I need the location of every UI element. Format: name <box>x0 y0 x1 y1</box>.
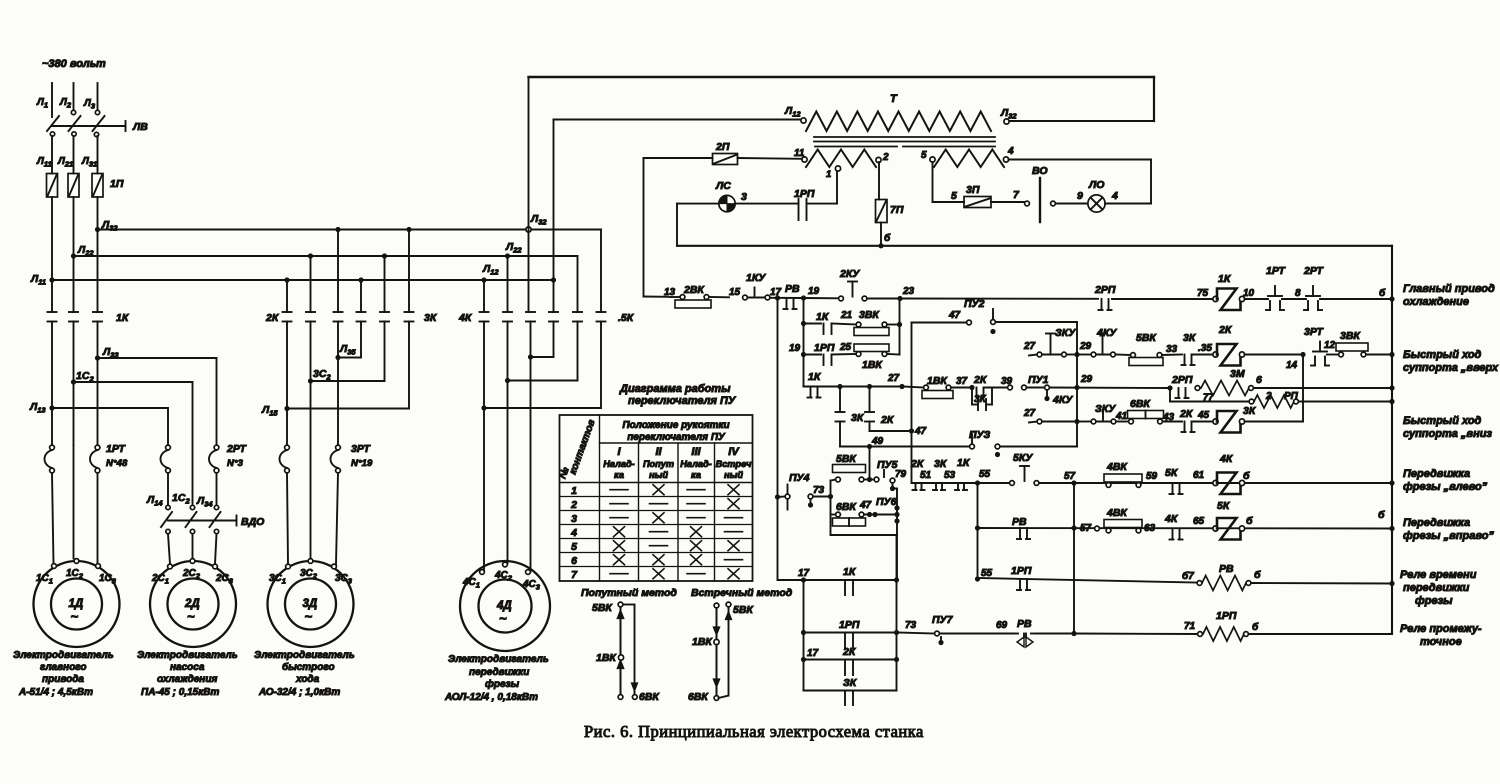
svg-text:Положение рукоятки: Положение рукоятки <box>622 420 729 431</box>
svg-text:4КУ: 4КУ <box>1096 327 1117 339</box>
node rung 1 bus <box>1389 296 1394 301</box>
svg-text:5: 5 <box>571 541 577 553</box>
svg-text:5: 5 <box>951 190 957 202</box>
wire б line <box>677 245 1392 247</box>
svg-text:4К: 4К <box>1219 453 1234 465</box>
svg-text:27: 27 <box>1023 341 1036 352</box>
попутный 1ВК node <box>618 655 623 660</box>
wire ПУ1 to 29 <box>1050 387 1171 390</box>
wire 3П to ВО <box>991 201 1025 203</box>
svg-text:6: 6 <box>1256 374 1262 386</box>
node Л35 crossover <box>335 355 340 360</box>
wire coil 3К to node 14 <box>1245 421 1304 423</box>
svg-text:3П: 3П <box>966 184 980 196</box>
svg-text:Электродвигатель: Электродвигатель <box>137 650 238 661</box>
wire riser 2К-A <box>286 280 288 312</box>
node rung вверх bus <box>1389 352 1394 357</box>
wire riser 3К-C <box>408 230 410 313</box>
РВ contact row <box>975 525 980 530</box>
svg-text:N°48: N°48 <box>106 458 128 469</box>
riser 57 <box>1073 483 1075 634</box>
wire 1РТ to 2РТ <box>1282 298 1306 300</box>
button 4КУ aux <box>1046 391 1048 396</box>
node 23 <box>897 296 902 301</box>
svg-text:9: 9 <box>1077 190 1083 202</box>
relay contact 2РП branch <box>1178 388 1180 398</box>
svg-text:~: ~ <box>187 609 195 624</box>
node branch 1 <box>801 321 806 326</box>
wire primary feed Л12 <box>554 119 803 121</box>
wire Л31 <box>97 136 99 174</box>
wire РВ rung to 1РП coil <box>1074 633 1198 636</box>
thermal contact 2РТ <box>1312 286 1314 296</box>
limit switch 3ВК вверх <box>1327 354 1339 356</box>
switch ЛВ blade 2 <box>69 116 81 131</box>
node 3С2 crossover <box>308 378 313 383</box>
svg-text:N°19: N°19 <box>351 458 373 469</box>
svg-text:фрезы „влево”: фрезы „влево” <box>1403 481 1488 493</box>
contactor coil 4К <box>1213 480 1218 485</box>
svg-text:51: 51 <box>920 470 932 481</box>
node 2РП branch <box>1167 385 1172 390</box>
relay contact РВ row <box>1019 528 1021 539</box>
wire 5 drop <box>932 162 934 202</box>
lamp ЛО <box>1088 195 1105 212</box>
node Л33 tap <box>95 355 100 360</box>
svg-text:10: 10 <box>1243 288 1255 299</box>
aux contact 2К column <box>865 411 874 413</box>
svg-text:РВ: РВ <box>1012 516 1027 528</box>
svg-text:Встречный метод: Встречный метод <box>691 587 793 599</box>
svg-text:41: 41 <box>1115 411 1128 422</box>
svg-text:б: б <box>1252 621 1259 633</box>
svg-text:2К: 2К <box>842 646 857 658</box>
svg-text:точное: точное <box>1420 636 1462 648</box>
node РВ bus <box>1389 581 1394 586</box>
svg-text:8: 8 <box>1295 288 1301 299</box>
svg-text:1КУ: 1КУ <box>746 272 766 284</box>
thermal contact 3РТ <box>1319 342 1321 352</box>
svg-text:4КУ: 4КУ <box>1052 394 1073 406</box>
contactor 1К main contact x=52 <box>48 311 57 313</box>
node 4Д crossover 1 <box>528 354 533 359</box>
wire 2Д C lower <box>216 473 218 505</box>
svg-text:4ВК: 4ВК <box>1106 461 1128 473</box>
transformer primary winding <box>806 112 991 132</box>
svg-text:57: 57 <box>1080 523 1092 534</box>
connector ПУ7 <box>935 631 940 636</box>
svg-text:19: 19 <box>789 343 801 354</box>
svg-text:РВ: РВ <box>785 283 800 295</box>
svg-text:2К: 2К <box>1218 324 1233 336</box>
wire self-hold rung <box>804 386 903 388</box>
wire phase 2 to bus <box>73 197 75 312</box>
svg-text:ВО: ВО <box>1032 165 1048 177</box>
wire 27 stub вверх <box>1029 355 1037 356</box>
motor 4Д terminals <box>480 570 485 575</box>
svg-text:ЗК: ЗК <box>843 677 858 689</box>
motor 2Д terminals <box>168 564 173 569</box>
svg-text:2: 2 <box>882 152 889 163</box>
svg-text:РВ: РВ <box>1219 563 1234 575</box>
svg-text:IV: IV <box>728 446 740 458</box>
wire 1Д phase A <box>51 322 53 446</box>
node 79 lower <box>890 486 895 491</box>
wire phase 3 to bus <box>97 197 99 312</box>
svg-text:б7: б7 <box>1182 570 1194 582</box>
svg-text:1РТ: 1РТ <box>106 443 126 455</box>
wire ПУ7 to 69 <box>940 633 1015 635</box>
motor 1Д terminals <box>52 564 57 569</box>
wire 7П to node б <box>880 223 882 246</box>
switch ВДО lower contacts <box>166 529 170 533</box>
limit switch 1ВК main <box>924 385 929 390</box>
limit switch 4ВК вправо <box>1104 520 1142 528</box>
svg-text:~: ~ <box>71 609 79 624</box>
wire РП to bus <box>1299 401 1393 403</box>
aux contact 5К влево <box>1172 483 1174 494</box>
svg-text:1ВК: 1ВК <box>692 636 713 648</box>
svg-text:55: 55 <box>979 469 991 480</box>
svg-text:3К: 3К <box>851 412 865 424</box>
limit switch 4ВК влево <box>1104 474 1142 482</box>
fuse 2П <box>713 154 738 165</box>
wire 17 corner to ladder <box>778 579 804 581</box>
svg-text:Налад-: Налад- <box>680 459 711 469</box>
wire Л11 <box>51 136 53 174</box>
contactor 2К main contact x=310.5 <box>306 311 315 313</box>
wire 3М to bus <box>1254 387 1393 389</box>
svg-text:75: 75 <box>1197 288 1209 299</box>
thermal relay 2РТ element C <box>214 445 219 450</box>
svg-text:1ВК: 1ВК <box>927 375 948 387</box>
svg-text:Передвижка: Передвижка <box>1403 517 1470 529</box>
thermal relay 3РТ element A <box>285 445 290 450</box>
relay coil РВ <box>1197 581 1202 586</box>
bypass 3К loop <box>971 388 973 405</box>
table frame <box>560 415 753 581</box>
svg-text:73: 73 <box>813 485 825 496</box>
wire Л35 crossover <box>338 357 361 359</box>
aux contact 1К branch <box>823 324 825 335</box>
switch ЛВ blade 3 <box>93 116 105 131</box>
wire 4Д crossover 2 <box>508 380 578 382</box>
svg-text:суппорта „вверх: суппорта „вверх <box>1403 362 1499 374</box>
wire 1С2 to pump <box>74 381 193 383</box>
svg-text:фрезы „вправо”: фрезы „вправо” <box>1403 530 1494 542</box>
ladder rung 1К <box>804 579 897 581</box>
svg-text:III: III <box>691 446 701 458</box>
svg-text:33: 33 <box>1166 344 1178 355</box>
svg-text:Передвижка: Передвижка <box>1403 468 1470 480</box>
transformer secondary 1 tap 1 <box>835 166 840 171</box>
node 47 <box>909 428 914 433</box>
node 55 <box>975 480 980 485</box>
wire 49 drop <box>869 447 871 480</box>
node 6ВК right a <box>867 512 872 517</box>
wire ПУ3 right <box>1000 446 1077 448</box>
switch ВО <box>1025 201 1030 206</box>
wire phase Л3 drop <box>97 83 99 110</box>
svg-text:Электродвигатель: Электродвигатель <box>448 654 549 665</box>
svg-text:~380 вольт: ~380 вольт <box>42 58 106 70</box>
встречный 1ВК node <box>714 639 719 644</box>
svg-text:3РТ: 3РТ <box>1304 326 1324 338</box>
wire riser 5К-C <box>600 230 602 313</box>
wire 1Д phase C <box>97 322 99 446</box>
svg-text:1РП: 1РП <box>814 342 835 354</box>
svg-text:хода: хода <box>295 674 320 685</box>
wire tap 1 to 1РП <box>807 203 838 205</box>
svg-text:1РП: 1РП <box>1216 610 1237 622</box>
svg-text:~: ~ <box>499 611 507 626</box>
svg-text:Электродвигатель: Электродвигатель <box>254 650 355 661</box>
wire branch 1К-3ВК <box>804 323 822 325</box>
wire lamp ЛС left <box>677 203 719 205</box>
limit switch 6ВК вниз <box>1116 421 1129 423</box>
попутный return line <box>623 604 635 606</box>
svg-text:23: 23 <box>902 286 915 297</box>
contactor 5К main contact x=601 <box>597 311 606 313</box>
wire phase 1 to bus <box>51 197 53 312</box>
svg-text:5ВК: 5ВК <box>836 453 857 465</box>
svg-text:ка: ка <box>614 470 624 480</box>
svg-text:2К: 2К <box>1179 408 1194 420</box>
svg-text:охлаждение: охлаждение <box>1403 296 1469 308</box>
svg-text:1РП: 1РП <box>794 188 815 200</box>
node ПУ5 junction <box>867 477 872 482</box>
connector ПУ5 <box>874 477 879 482</box>
svg-text:переключателя ПУ: переключателя ПУ <box>628 395 737 407</box>
svg-text:Реле времени: Реле времени <box>1400 569 1477 581</box>
svg-text:65: 65 <box>1193 516 1205 527</box>
node 49 <box>867 444 872 449</box>
svg-text:3ВК: 3ВК <box>859 309 880 321</box>
wire 47 riser <box>911 323 913 484</box>
node 27 <box>899 384 904 389</box>
svg-text:ПУ2: ПУ2 <box>964 298 985 310</box>
svg-text:55: 55 <box>981 568 993 579</box>
svg-text:6ВК: 6ВК <box>836 501 857 513</box>
resistor 3М <box>1201 381 1249 396</box>
svg-text:12: 12 <box>1324 340 1336 351</box>
limit switch 1ВК <box>832 353 858 356</box>
transformer primary terminal Л32 <box>1004 119 1009 124</box>
svg-text:5: 5 <box>921 150 927 161</box>
node 29 mid <box>1074 385 1079 390</box>
svg-text:47: 47 <box>948 310 961 321</box>
wire right bus б <box>1391 246 1393 634</box>
relay contact 1РП row <box>1019 579 1021 590</box>
contactor 2К main contact x=287 <box>283 311 292 313</box>
wire 27 to node вниз <box>1042 421 1077 423</box>
wire ВО to ЛО <box>1056 203 1088 205</box>
thermal relay 1РТ element A <box>50 445 55 450</box>
contactor 1К main contact x=97.5 <box>93 311 102 313</box>
limit switch 5ВК lower <box>831 480 837 481</box>
transformer secondary 2 terminal 4 <box>1003 157 1008 162</box>
svg-text:2К: 2К <box>880 414 895 426</box>
svg-text:4ВК: 4ВК <box>1106 507 1128 519</box>
wire 3К column <box>839 387 841 413</box>
svg-text:Быстрый ход: Быстрый ход <box>1403 349 1482 361</box>
node 57 mid <box>1071 525 1076 530</box>
wire riser 3К-B <box>384 256 386 312</box>
table column lines <box>599 415 601 581</box>
svg-text:25: 25 <box>839 342 852 353</box>
svg-text:2РТ: 2РТ <box>226 443 247 455</box>
node вправо bus <box>1389 526 1394 531</box>
resistor РП <box>1249 399 1254 404</box>
switch ВДО pole 3 <box>214 505 218 509</box>
node Л15 crossover <box>284 406 289 411</box>
svg-text:1К: 1К <box>116 312 130 324</box>
svg-text:2К: 2К <box>265 312 280 324</box>
contactor coil 1К <box>1213 296 1218 301</box>
transformer secondary 2 winding <box>934 150 1004 168</box>
svg-text:ЗКУ: ЗКУ <box>1055 327 1076 339</box>
wire phase Л1 drop <box>51 83 53 117</box>
transformer primary terminal Л12 <box>801 118 806 123</box>
wire 79 drop <box>892 483 894 489</box>
wire 3С2 crossover <box>311 380 385 382</box>
svg-text:передвижки: передвижки <box>469 667 529 678</box>
svg-text:27: 27 <box>887 373 900 384</box>
node box left <box>828 494 833 499</box>
vertical 17 bus <box>777 298 779 580</box>
fuse 1П pole 3 <box>92 174 103 198</box>
svg-text:1РТ: 1РТ <box>1266 265 1286 277</box>
wire coil 2К to node 14 <box>1245 354 1304 356</box>
wire control left drop <box>643 158 645 297</box>
svg-text:б: б <box>1246 515 1253 527</box>
wire riser 5К-B <box>576 255 578 257</box>
svg-text:1К: 1К <box>843 566 857 578</box>
wire Л13 to pump <box>52 407 168 409</box>
svg-text:суппорта „вниз: суппорта „вниз <box>1403 428 1492 440</box>
wire 23 drop <box>899 299 901 355</box>
svg-text:4: 4 <box>570 527 577 539</box>
fuse 1П pole 1 <box>47 174 58 198</box>
transformer core <box>814 136 995 138</box>
node 17 <box>775 295 780 300</box>
svg-text:73: 73 <box>905 620 917 631</box>
wire 4Д phase A <box>483 322 485 572</box>
wire lamp ЛС right <box>735 203 798 205</box>
aux contact 4К вправо <box>1172 529 1174 540</box>
wire 1Д C lower <box>97 473 99 564</box>
svg-text:Попут: Попут <box>643 459 674 469</box>
wire 2К column to 47 <box>869 422 871 432</box>
wire top bus right drop <box>1153 77 1155 121</box>
wire riser 3К-A <box>360 280 362 312</box>
limit switch 3ВК <box>856 322 861 327</box>
wire 4Д crossover 1 <box>531 356 554 358</box>
svg-text:3: 3 <box>571 513 577 525</box>
svg-text:69: 69 <box>996 620 1008 631</box>
switch ВДО pole 1 <box>166 505 170 509</box>
svg-text:5ВК: 5ВК <box>1136 332 1157 344</box>
svg-text:А-51/4 ; 4,5кВт: А-51/4 ; 4,5кВт <box>18 687 93 698</box>
wire 2К column <box>869 387 871 413</box>
svg-text:1: 1 <box>826 169 831 180</box>
fuse 3П <box>964 197 991 208</box>
node 6ВК right b <box>872 512 877 517</box>
svg-text:б: б <box>1254 569 1261 581</box>
svg-text:б: б <box>1378 509 1385 521</box>
svg-text:53: 53 <box>944 470 956 481</box>
svg-text:5К: 5К <box>1217 500 1231 512</box>
svg-text:1П: 1П <box>110 178 124 190</box>
button 3КУ <box>1042 354 1062 356</box>
limit switch 2ВК <box>669 296 681 298</box>
wire ПУ3 rung left <box>840 446 970 448</box>
aux contact 3К вверх <box>1184 355 1186 366</box>
ladder right rail <box>896 535 898 691</box>
button 1КУ <box>748 297 766 299</box>
svg-text:5КУ: 5КУ <box>1013 452 1033 464</box>
button 4КУ <box>1077 354 1091 356</box>
connector ПУ2 <box>992 309 994 320</box>
svg-text:.35: .35 <box>1198 343 1212 354</box>
node 19 <box>801 295 806 300</box>
wire 3К column lower <box>839 422 841 447</box>
wire riser 2К-C <box>337 230 339 313</box>
node box 6ВК junction <box>894 512 899 517</box>
wire 4Д phase B <box>507 322 509 564</box>
попутный main line <box>618 602 623 607</box>
wire 2РП to coil 1К <box>1112 298 1213 300</box>
switch ЛВ link bar <box>52 125 126 127</box>
svg-text:2РТ: 2РТ <box>1303 265 1324 277</box>
svg-text:ЛВ: ЛВ <box>132 121 148 133</box>
svg-text:2П: 2П <box>715 141 730 153</box>
wire coil 1К to 1РТ <box>1245 298 1269 300</box>
svg-text:Попутный метод: Попутный метод <box>581 587 677 599</box>
switch ВДО link bar <box>168 520 237 522</box>
wire ladder to ПУ7 <box>897 633 935 634</box>
contactor 4К main contact x=530.5 <box>526 311 535 313</box>
svg-text:охлаждения: охлаждения <box>157 674 217 685</box>
node 2К drop <box>867 384 872 389</box>
thermal relay 1РТ element C <box>95 445 100 450</box>
connector ПУ4 <box>787 485 789 494</box>
contactor 3К main contact x=361 <box>357 311 366 313</box>
svg-text:фрезы: фрезы <box>1415 595 1453 607</box>
motor 2Д <box>150 561 236 647</box>
svg-text:быстрого: быстрого <box>282 661 335 673</box>
wire ЛО to terminal 4 <box>1105 203 1151 205</box>
svg-text:47: 47 <box>859 500 872 511</box>
svg-text:63: 63 <box>1144 523 1156 534</box>
svg-text:насоса: насоса <box>170 662 205 673</box>
svg-text:N°3: N°3 <box>227 458 244 469</box>
wire 55 drop <box>977 483 979 579</box>
wire 27 stub вниз <box>1029 422 1037 423</box>
svg-text:Электродвигатель: Электродвигатель <box>13 650 114 661</box>
node ПУ4 17 <box>775 494 780 499</box>
svg-text:5ВК: 5ВК <box>592 602 613 614</box>
svg-text:6: 6 <box>571 555 577 567</box>
wire node19 drop <box>803 298 805 387</box>
wire 2РТ to bus <box>1320 298 1392 300</box>
wire 3Д phase A <box>286 322 288 446</box>
wire box bottom <box>831 534 898 536</box>
svg-text:3К: 3К <box>424 312 438 324</box>
bus Л12 <box>52 279 554 281</box>
contactor coil 2К <box>1213 352 1218 357</box>
contactor coil 3К <box>1213 419 1218 424</box>
